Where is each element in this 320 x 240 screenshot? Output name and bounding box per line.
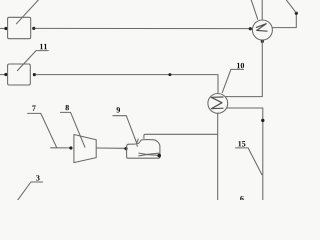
node dot on vessel 11 wire: [168, 73, 171, 76]
wire: left edge stub into vessel 11: [0, 74, 5, 76]
wire: vessel 11 to heat exchanger 10: [36, 75, 219, 94]
node dot right of vessel 11: [33, 73, 36, 76]
label 8: [65, 105, 68, 110]
node dot at end of right outlet: [295, 12, 298, 15]
leader line to right outlet end (label off top edge): [286, 0, 296, 12]
node dot at turbine 8 inlet: [69, 146, 72, 149]
node dot at ejector outlet: [157, 154, 161, 158]
heat exchanger 12 (circle): [252, 20, 272, 40]
heat exchanger 10 (circle): [208, 94, 228, 114]
wire: heat exchanger 10 lower right outlet down right side: [226, 108, 262, 200]
wire: turbine 8 outlet to ejector 9: [97, 147, 125, 149]
ejector 9 nozzle: [139, 153, 159, 156]
node dot on right vertical pipe: [261, 119, 264, 122]
heat exchanger 12 coil: [256, 24, 267, 32]
label 9: [117, 107, 120, 112]
label 6: [240, 196, 243, 201]
heat exchanger 10 coil: [211, 97, 223, 109]
leader line from label 9 into ejector (with V tip): [113, 116, 138, 147]
wire: left edge stub into vessel 1: [0, 28, 5, 30]
leader line to heat exchanger 12 (label off top edge): [251, 0, 258, 19]
wire: heat exchanger 10 bottom down to bottom edge: [217, 113, 219, 200]
wire: vessel 1 to heat exchanger 12: [35, 27, 249, 29]
leader line from label 15 to right vertical pipe: [236, 148, 262, 175]
wire: top edge vertical into heat exchanger 12: [261, 0, 263, 20]
node dot right of vessel 1: [32, 27, 35, 30]
node dot below heat exchanger 12: [261, 40, 264, 43]
vessel 11 (square box): [8, 64, 31, 85]
node dot left of vessel 1: [4, 27, 7, 30]
label 7: [32, 105, 35, 110]
wire: heat exchanger 12 down then left to heat exchanger 10: [225, 40, 262, 97]
turbine 8 (trapezoid): [74, 135, 96, 163]
vessel 1 (square box, label cut off at top): [8, 17, 31, 38]
wire: ejector suction line to vertical pipe: [144, 134, 218, 138]
node dot at left of heat exchanger 12: [249, 27, 252, 30]
ejector 9 body: [127, 140, 160, 159]
node dot at ejector 9 inlet: [124, 147, 127, 150]
leader line from label 11 into vessel 11: [17, 51, 48, 71]
leader line from label 7 to turbine inlet: [28, 113, 57, 147]
label 10: [237, 63, 244, 68]
label 11: [40, 44, 47, 49]
wire: turbine 8 inlet line: [51, 147, 70, 149]
label 15: [238, 141, 245, 146]
wire: heat exchanger 12 right outlet: [272, 14, 296, 28]
node dot left of vessel 11: [4, 73, 7, 76]
leader line from label 10 to heat exchanger 10: [222, 69, 243, 92]
label 3: [36, 175, 39, 180]
leader line from label 3 (goes off bottom-left): [17, 182, 43, 201]
leader line from label 8 into turbine: [60, 112, 85, 147]
leader line to vessel 1 (label off top edge): [16, 0, 39, 24]
